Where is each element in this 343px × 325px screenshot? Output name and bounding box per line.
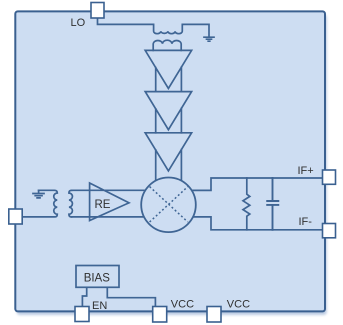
svg-text:IF-: IF- (299, 216, 313, 228)
svg-text:BIAS: BIAS (84, 272, 111, 284)
svg-text:VCC: VCC (227, 299, 250, 311)
svg-text:RE: RE (95, 199, 111, 211)
svg-text:IF+: IF+ (298, 165, 314, 177)
svg-text:EN: EN (92, 300, 107, 312)
svg-text:LO: LO (71, 17, 86, 29)
svg-text:VCC: VCC (171, 299, 194, 311)
